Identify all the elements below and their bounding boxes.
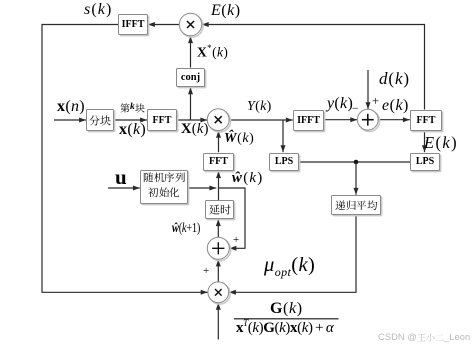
label s(k) bbox=[84, 2, 112, 19]
label E(k) right bbox=[424, 134, 458, 151]
label Y(k) bbox=[247, 100, 272, 115]
box FFT1 bbox=[147, 109, 177, 131]
box init (random sequence initialisation) bbox=[140, 170, 188, 204]
fraction bar bbox=[234, 318, 339, 320]
wire M4 output up to adder A2 bbox=[216, 260, 221, 282]
wire yanshi output w(k) up to FFT2 bbox=[216, 171, 221, 200]
wire fenkuai to FFT1 bbox=[114, 118, 147, 123]
label plus sign feedback into A2 bbox=[233, 235, 239, 247]
label G(k) numerator bbox=[270, 301, 303, 318]
wire A1 output e(k) to FFT3 bbox=[378, 117, 409, 122]
wire digui output mu down left to M4 bbox=[229, 215, 356, 295]
wire FFT3 output E(k) down to LPS2 bbox=[422, 131, 427, 153]
label d(k) bbox=[379, 70, 410, 88]
wire X(k) junction up to conj bbox=[188, 87, 193, 120]
wire FFT2 output W(k) to M2 bbox=[216, 131, 221, 152]
box FFT2 bbox=[203, 153, 234, 172]
wire Y(k) tee down to LPS1 bbox=[281, 120, 286, 152]
wire dot down to digui box bbox=[354, 162, 359, 195]
wire u input arrow bbox=[108, 186, 140, 191]
label mu opt (k) bbox=[264, 255, 315, 279]
label plus sign M4 output into A2 bbox=[203, 266, 209, 278]
multiplier M1 (E times X*) bbox=[179, 13, 203, 37]
label e(k) bbox=[382, 98, 409, 115]
adder A1 (d minus y) bbox=[357, 109, 379, 131]
box fenkuai (block split) bbox=[86, 109, 114, 131]
wire A2 output up to yanshi bbox=[216, 219, 221, 237]
wire conj output to M1 bbox=[188, 36, 193, 67]
box LPS2 bbox=[410, 153, 440, 172]
wire M2 output Y(k) to IFFT2 bbox=[229, 118, 292, 123]
label u bbox=[115, 166, 127, 188]
box digui (recursive average) bbox=[331, 195, 381, 215]
label di k kuai bbox=[120, 103, 145, 113]
multiplier M2 (X times W) bbox=[207, 109, 230, 132]
label X*(k) bbox=[197, 44, 228, 60]
wire init output to junction bbox=[188, 186, 216, 191]
box conj bbox=[176, 68, 205, 88]
wire M1 output to IFFT1 bbox=[148, 22, 179, 27]
wire IFFT1 output s(k) left rail down to multiplier M4 bbox=[42, 25, 208, 295]
wire d(k) input down to adder A1 bbox=[366, 70, 371, 109]
label plus sign at A1 d input bbox=[372, 95, 379, 108]
wire LPS1 to LPS2 connector bbox=[299, 161, 410, 163]
label w(k+1) hat bbox=[172, 221, 200, 235]
box yanshi (delay) bbox=[205, 200, 234, 219]
multiplier M4 (step size product) bbox=[208, 282, 230, 304]
label x(n) bbox=[57, 99, 85, 116]
box LPS1 bbox=[269, 153, 299, 172]
box IFFT1 bbox=[118, 14, 148, 35]
label denominator xT(k)G(k)x(k)+alpha bbox=[236, 319, 333, 337]
wire G fraction input up to M4 bbox=[216, 303, 221, 340]
wire w(k) feedback to adder A2 bbox=[219, 188, 246, 251]
wire IFFT2 output y(k) to adder A1 bbox=[324, 117, 357, 122]
label watermark CSDN bbox=[378, 333, 470, 344]
adder A2 (weight update) bbox=[207, 237, 230, 260]
label W(k) hat bbox=[224, 132, 254, 147]
label minus sign at A1 bbox=[352, 103, 359, 115]
label x(k) bbox=[119, 122, 146, 139]
label w(k) hat bbox=[232, 171, 263, 187]
wire FFT1 output X(k) to multiplier M2 bbox=[177, 118, 207, 123]
box FFT3 bbox=[410, 110, 442, 131]
box IFFT2 bbox=[293, 110, 324, 131]
junction dot on LPS connector bbox=[354, 160, 359, 165]
wire x(n) input arrow bbox=[54, 118, 86, 123]
wire top rail E(k) to multiplier M1 bbox=[202, 22, 425, 110]
label y(k) bbox=[327, 96, 353, 113]
label E(k) top bbox=[211, 3, 241, 20]
label X(k) bbox=[181, 122, 209, 137]
